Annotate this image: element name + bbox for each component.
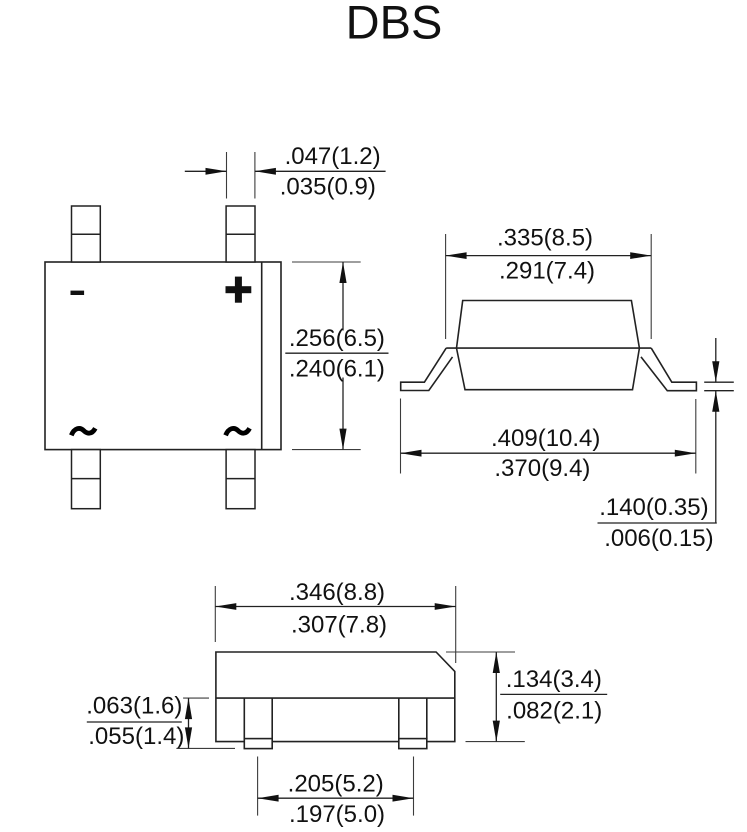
- dimension .140/.006 marker lines: [704, 381, 734, 383]
- plus polarity mark: [226, 277, 252, 303]
- svg-text:.035(0.9): .035(0.9): [280, 173, 376, 200]
- svg-text:.346(8.8): .346(8.8): [289, 579, 385, 606]
- dimension .047/.035 lines and arrows: [185, 168, 386, 175]
- tilde AC mark left: [71, 428, 95, 435]
- svg-text:.205(5.2): .205(5.2): [288, 770, 384, 797]
- svg-text:.240(6.1): .240(6.1): [289, 355, 385, 382]
- dimension .140/.006 vertical lines and arrows: [712, 338, 719, 523]
- dimension .409/.370 extension lines: [400, 399, 402, 474]
- dimension .346/.307 extension lines: [214, 586, 216, 642]
- dimension .409/.370 line and arrows: [401, 450, 696, 457]
- svg-text:.370(9.4): .370(9.4): [494, 455, 590, 482]
- fraction line .256/.240: [285, 352, 388, 354]
- pin bottom-left: [72, 450, 101, 509]
- dimension .346/.307 line and arrows: [215, 603, 455, 610]
- svg-text:.063(1.6): .063(1.6): [86, 692, 182, 719]
- svg-text:.409(10.4): .409(10.4): [491, 425, 600, 452]
- svg-text:DBS: DBS: [346, 0, 443, 49]
- svg-text:.256(6.5): .256(6.5): [289, 325, 385, 352]
- fraction line .140/.006: [598, 522, 717, 524]
- svg-text:.307(7.8): .307(7.8): [291, 612, 387, 639]
- tilde AC mark right: [226, 428, 250, 435]
- bottom view parting line: [216, 697, 455, 699]
- side view right gull-wing lead: [641, 348, 696, 391]
- svg-text:.047(1.2): .047(1.2): [285, 143, 381, 170]
- top view body: [45, 262, 281, 450]
- dimension .256/.240 extension lines: [292, 261, 361, 263]
- svg-text:.006(0.15): .006(0.15): [604, 525, 713, 552]
- dimension .335/.291 line and arrows: [446, 252, 652, 259]
- dimension .063/.055 extension lines: [183, 697, 209, 699]
- dimension .134/.082 extension lines: [446, 651, 515, 653]
- svg-text:.140(0.35): .140(0.35): [599, 494, 708, 521]
- dimension .063/.055 line and arrows: [185, 698, 192, 748]
- minus polarity mark: [71, 291, 85, 295]
- pin top-left: [72, 206, 101, 262]
- side view body: [457, 301, 640, 390]
- dimension .205/.197 line and arrows: [258, 795, 414, 802]
- svg-text:.335(8.5): .335(8.5): [497, 224, 593, 251]
- dimension .335/.291 extension lines: [445, 234, 447, 339]
- dimension .134/.082 line and arrows: [493, 652, 500, 742]
- side view seating plane line: [446, 347, 651, 349]
- bottom view right pin: [399, 698, 427, 749]
- bottom view left pin: [244, 698, 272, 749]
- fraction line .134/.082: [500, 693, 607, 695]
- pin top-right: [226, 206, 255, 262]
- fraction line .063/.055: [87, 721, 182, 723]
- svg-text:.134(3.4): .134(3.4): [506, 666, 602, 693]
- pin bottom-right: [226, 450, 255, 509]
- svg-text:.291(7.4): .291(7.4): [499, 257, 595, 284]
- bottom view body: [216, 652, 455, 742]
- svg-text:.055(1.4): .055(1.4): [88, 723, 184, 750]
- dimension .256/.240 lines and arrows: [339, 262, 346, 450]
- dimension .205/.197 extension lines: [257, 757, 259, 816]
- dimension .047/.035 extension lines: [226, 152, 228, 199]
- svg-text:.197(5.0): .197(5.0): [289, 801, 385, 828]
- svg-text:.082(2.1): .082(2.1): [506, 697, 602, 724]
- side view left gull-wing lead: [401, 348, 453, 390]
